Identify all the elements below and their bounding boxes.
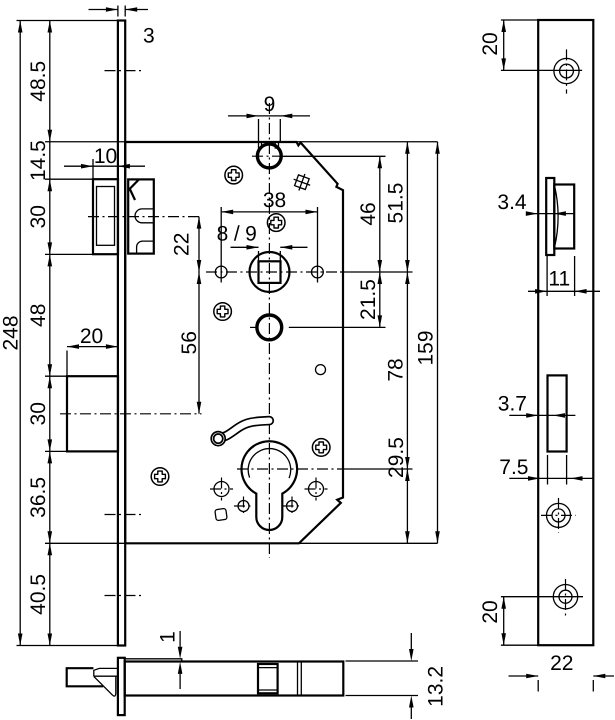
dim 22 [537,680,539,692]
faceplate side [118,21,125,646]
dim 20 bottom right [501,644,538,646]
dim 20 top right [501,19,538,21]
ext deadbolt top [45,375,67,377]
latch wedge bottom view [94,676,116,696]
top hole bold [257,144,281,168]
hole right of spindle [312,266,324,278]
dim 46 21.5 line [379,156,381,327]
deadbolt slot front [548,375,567,451]
ext plate bottom [17,645,126,647]
latch centerline [88,216,202,218]
svg-text:22: 22 [550,652,573,675]
screw top left [225,166,243,184]
faceplate front [538,20,593,645]
latch bevel mark [129,179,139,200]
latch band bottom view [94,668,118,676]
svg-text:51.5: 51.5 [384,183,407,224]
9mm slot notch left [259,142,262,148]
small hole right [316,365,326,375]
cylinder h centerline [237,468,340,470]
top screw crosshair [501,69,582,71]
dim 13.2 [346,660,419,662]
lower hole bold [257,315,282,340]
screw upper middle [267,214,285,232]
latch front body [554,185,574,249]
dim 3 plate thickness [117,6,119,17]
svg-text:78: 78 [384,358,407,381]
svg-text:3: 3 [143,25,155,48]
lock case outline [125,142,343,543]
chain dim line [49,21,51,646]
dim 38 [220,207,222,283]
deadbolt bottom view [67,668,104,686]
9mm slot notch right [275,142,278,148]
faceplate screw mark mid [105,514,144,516]
latch front curve [555,186,559,247]
screw right of cylinder [312,439,330,457]
svg-text:29.5: 29.5 [385,437,408,478]
tilted square symbol [291,171,314,194]
cylinder lines bottom view [297,662,299,696]
svg-text:14.5: 14.5 [27,140,50,181]
svg-text:7.5: 7.5 [499,456,528,479]
faceplate screw mark bottom [105,595,144,597]
hole inner left low [234,497,253,516]
latch head front [93,179,118,254]
svg-text:30: 30 [27,205,50,228]
deadbolt [67,376,118,451]
dim 22-56 line [198,217,200,414]
svg-text:11: 11 [548,268,570,291]
dim 7.5 [547,455,549,485]
dim 9 top slot [258,119,260,142]
svg-text:3.7: 3.7 [498,393,527,416]
bottom screw hole 1 [547,503,571,527]
latch spring slot lower [137,241,154,253]
svg-text:56: 56 [178,331,201,354]
svg-text:9: 9 [264,93,276,116]
svg-text:40.5: 40.5 [27,574,50,615]
ext latch top [45,178,93,180]
faceplate bar [118,658,125,715]
svg-text:48: 48 [27,304,50,327]
svg-text:248: 248 [0,315,22,350]
top screw hole [554,58,579,83]
svg-text:20: 20 [80,325,103,348]
dim 20 deadbolt [66,351,68,377]
ext cylinder center right [340,468,413,470]
ext top hole center [283,155,386,157]
dim 8/9 spindle [258,251,260,261]
svg-text:22: 22 [171,233,194,256]
svg-text:10: 10 [94,145,117,168]
latch guide step [125,659,182,662]
screw left of cylinder [151,468,169,486]
ext lower hole center [289,326,386,328]
spindle h centerline [206,271,340,273]
svg-text:20: 20 [479,600,502,623]
ext deadbolt bottom [45,450,67,452]
svg-text:159: 159 [415,330,438,365]
svg-text:36.5: 36.5 [27,477,50,518]
ext spindle center right [340,271,413,273]
svg-text:38: 38 [263,189,286,212]
case slab [125,662,344,696]
latch front flange [546,178,554,255]
ext latch bottom [45,253,93,255]
ext case bottom long [45,542,438,544]
svg-text:3.4: 3.4 [497,191,527,214]
hole far right of cylinder [305,478,328,501]
svg-text:30: 30 [27,402,50,425]
svg-text:21.5: 21.5 [357,279,380,320]
bottom screw hole 2 [553,585,577,609]
dim 159 line [437,142,439,544]
svg-text:1: 1 [157,631,180,643]
small rounded square [215,508,227,520]
svg-text:20: 20 [479,32,502,55]
faceplate screw mark top [105,70,144,72]
ext case top long [45,141,438,143]
dim 51.5 78 29.5 line [406,142,408,544]
spindle square 8/9 [259,261,281,283]
dim 10 latch [92,159,94,179]
svg-text:8/9: 8/9 [217,223,263,246]
spindle hub bottom view [258,664,278,693]
dim 1 [179,631,181,647]
dim 248 line [19,21,21,646]
deadbolt centerline [60,413,202,415]
spring lever arm [211,421,269,446]
lower hole dash left [250,326,256,328]
svg-text:46: 46 [357,202,380,225]
spindle follower circle [250,252,290,292]
screw mid left [214,303,232,321]
euro cylinder profile [241,441,297,530]
dim 11 [546,256,548,296]
latch head inner face [97,187,115,246]
dim 3.4 [527,213,575,215]
hole inner right low [283,497,302,516]
cylinder inner arc [248,449,291,479]
svg-text:48.5: 48.5 [27,61,50,102]
hole far left of cylinder [210,478,233,501]
latch tail box [128,179,154,253]
ext top plate [17,20,118,22]
main vertical centerline [268,103,270,558]
top hole centerline [252,155,287,157]
svg-text:13.2: 13.2 [424,666,447,707]
latch spring slot upper [135,209,154,223]
hole left of spindle [215,266,227,278]
dim 3.7 [509,414,575,416]
